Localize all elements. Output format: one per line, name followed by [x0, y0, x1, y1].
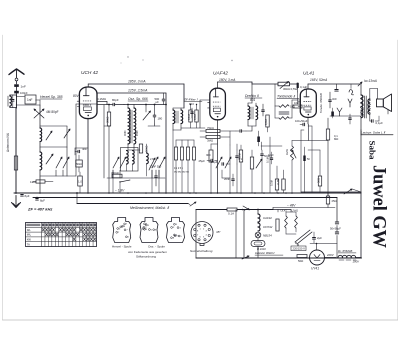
resistor 50kΩ det	[206, 135, 220, 138]
switch contact AF a	[216, 157, 222, 168]
wire UAF42 grid line	[200, 99, 210, 101]
svg-text:180V, 3 mA: 180V, 3 mA	[219, 78, 235, 82]
resistor 0.5MΩ af	[275, 179, 278, 190]
svg-text:360pF: 360pF	[111, 171, 119, 175]
wire -48 line	[273, 207, 335, 209]
svg-text:Ia=13mA: Ia=13mA	[364, 79, 377, 83]
svg-text:0,1M: 0,1M	[187, 114, 191, 120]
capacitor 400pF right	[349, 117, 352, 119]
svg-text:4nF: 4nF	[82, 147, 87, 151]
svg-text:− 48V: − 48V	[287, 204, 296, 208]
capacitor blob det	[257, 137, 260, 143]
capacitor 0.1uF speaker	[371, 120, 373, 123]
box osc low	[121, 148, 139, 172]
IF transformer 1 coil B	[181, 110, 183, 124]
trimmer arrow L1	[46, 131, 52, 140]
socket diagram	[191, 222, 213, 244]
wire x146 plain	[145, 105, 147, 113]
output transformer core	[364, 96, 366, 118]
switch contact b	[63, 157, 69, 168]
IF transformer 2 coil B	[256, 106, 258, 120]
rectifier tube UY41	[310, 250, 325, 265]
svg-text:100+50µF: 100+50µF	[295, 119, 308, 123]
capacitor 180pF osc	[153, 114, 156, 116]
page bottom edge line	[3, 319, 398, 321]
coil former drawing 3	[167, 218, 185, 243]
svg-text:Osz. - Spule: Osz. - Spule	[148, 245, 165, 249]
resistor 1.0kΩ	[78, 176, 83, 186]
page right edge line	[397, 40, 399, 320]
resistor heater dropper	[276, 219, 279, 231]
svg-text:Juwel GW: Juwel GW	[369, 165, 390, 248]
capacitor 1nF antenna series	[14, 84, 19, 87]
switch padder	[120, 180, 130, 182]
wire af columns	[251, 150, 253, 157]
svg-text:0,3M: 0,3M	[193, 114, 197, 120]
svg-text:0,1µF: 0,1µF	[300, 85, 307, 89]
wire res quartet top	[175, 140, 177, 147]
wire UAF42 cathode	[217, 120, 219, 193]
svg-text:Antennen Ntl.: Antennen Ntl.	[6, 133, 10, 152]
resistor 300Ω cath	[209, 150, 213, 162]
svg-text:1MΩ: 1MΩ	[285, 149, 289, 155]
junction arrow Ia	[358, 82, 362, 86]
wire speaker feed	[377, 89, 379, 100]
tone zigzag 2	[279, 117, 289, 120]
svg-text:70kΩ: 70kΩ	[207, 126, 214, 130]
svg-text:20nF: 20nF	[224, 177, 231, 181]
svg-text:µF: µF	[156, 100, 160, 104]
tube UAF42	[210, 88, 226, 120]
wire fb	[332, 116, 334, 118]
voltage selector switch	[295, 230, 310, 242]
capacitor 500pF	[162, 98, 165, 100]
wire x146 down	[148, 125, 160, 127]
resistor 30kΩ osc	[107, 112, 110, 126]
resistor q4	[192, 147, 195, 160]
wire B1-B2 links	[76, 193, 78, 204]
heater resistor UL41	[285, 216, 288, 228]
capacitor IF2 tune	[262, 109, 265, 111]
resistor 0.1MΩ af	[250, 157, 253, 169]
tube UCH42	[79, 87, 97, 119]
capacitor tap T	[336, 84, 338, 89]
wire band frame	[103, 105, 105, 179]
oscillator coil lower B	[133, 150, 135, 164]
switch contact osc c	[152, 157, 158, 168]
svg-text:2,5nF 500: 2,5nF 500	[150, 165, 162, 169]
wire IF1 bottom	[172, 124, 174, 130]
svg-text:4M 80pF: 4M 80pF	[46, 110, 59, 114]
wire tone cap down	[297, 92, 299, 104]
wire mains block verticals	[195, 210, 197, 259]
wire osc column x109	[108, 105, 110, 113]
resistor 0.2MΩ det	[239, 150, 242, 162]
wire sel	[285, 228, 287, 234]
wire antenna node	[17, 96, 25, 98]
svg-text:1990: 1990	[136, 130, 139, 136]
electrolytic 50+50uF	[335, 221, 338, 223]
IF2 core	[250, 107, 252, 119]
jumper table	[26, 223, 97, 247]
svg-text:100pF: 100pF	[20, 91, 28, 95]
wire det cluster	[210, 144, 212, 150]
svg-text:30kΩ: 30kΩ	[106, 117, 110, 123]
heater resistor UY41	[295, 216, 298, 228]
wire transformer wiring	[360, 84, 362, 95]
svg-text:ZF-Filter Ⅰ: ZF-Filter Ⅰ	[183, 98, 199, 102]
svg-text:801: 801	[189, 102, 194, 106]
mains switch	[190, 202, 196, 206]
antenna insulator circle	[15, 78, 18, 81]
resistor 50Ω right	[318, 176, 321, 186]
switch bottom	[242, 256, 249, 259]
svg-text:1,0: 1,0	[78, 180, 82, 184]
capacitor 25uF UAF	[210, 159, 212, 162]
tone pot 30kΩ	[278, 82, 290, 86]
svg-text:8µF: 8µF	[40, 199, 45, 203]
svg-text:M/L: M/L	[27, 233, 32, 237]
trimmer arrow mid	[64, 129, 70, 138]
ground symbol main	[15, 196, 17, 206]
svg-text:Heizwid. 90kΩ/J: Heizwid. 90kΩ/J	[255, 251, 275, 255]
capacitor 8uF b	[36, 198, 39, 200]
switch contact osc a	[113, 157, 119, 168]
coil former drawing 1	[113, 218, 131, 243]
capacitor 20nF af	[232, 178, 235, 180]
svg-text:MΩ MΩ MΩ MΩ: MΩ MΩ MΩ MΩ	[174, 172, 189, 174]
resistor quartet leads	[175, 160, 177, 193]
svg-text:190V: 190V	[353, 260, 361, 264]
svg-text:10µF: 10µF	[268, 154, 274, 157]
switch contact osc b	[120, 157, 126, 168]
speck 4	[121, 63, 122, 64]
tone zigzag 1	[279, 105, 289, 108]
svg-text:185V, 3 mA: 185V, 3 mA	[128, 80, 146, 84]
resistor q2	[180, 147, 183, 160]
tone cap plates	[279, 111, 289, 113]
svg-text:Dr. 656/GB: Dr. 656/GB	[338, 249, 352, 253]
svg-text:25µF: 25µF	[199, 159, 206, 163]
wire UCH42 anode to H1 bus	[87, 84, 89, 87]
switch on fused line	[243, 206, 250, 210]
resistor 10kΩ tone	[293, 105, 302, 108]
wire right mid	[319, 150, 321, 176]
svg-text:0,1M: 0,1M	[266, 156, 270, 163]
resistor 0.3M IF2	[266, 115, 269, 127]
resistor 50kΩ osc grid	[139, 144, 142, 153]
wire UL41 grid	[292, 99, 300, 101]
IF1 core	[175, 111, 177, 123]
wire tone cluster	[274, 84, 276, 106]
capacitor antenna parallel	[12, 99, 14, 101]
wire det rows	[200, 130, 206, 132]
wire UL41 anode	[307, 84, 309, 89]
oscillator coil upper B	[134, 108, 136, 144]
tube UL41	[300, 89, 316, 117]
label 220/150V	[291, 246, 306, 251]
Y symbol tone switch	[348, 99, 352, 107]
svg-text:300: 300	[206, 153, 211, 157]
wire upper res pair	[190, 105, 192, 111]
capacitor 50nF	[261, 153, 264, 155]
svg-text:KW: KW	[27, 238, 32, 242]
svg-text:50kΩ: 50kΩ	[76, 162, 82, 166]
IF transformer 2 coil A	[248, 106, 250, 120]
svg-text:U 2410: U 2410	[257, 247, 266, 251]
svg-text:1kΩ: 1kΩ	[30, 180, 36, 184]
wire H1 drop	[183, 84, 185, 108]
IF transformer 1 coil A	[173, 110, 175, 124]
svg-text:D/L: D/L	[27, 228, 32, 232]
resistor 50kΩ cathode	[76, 160, 83, 167]
wire H2 drop	[165, 93, 167, 193]
coil former drawing 2	[140, 218, 158, 243]
svg-text:45°: 45°	[216, 230, 221, 234]
Y symbol 2	[337, 108, 342, 116]
svg-text:0,1µF: 0,1µF	[376, 121, 384, 125]
svg-text:UAF42: UAF42	[213, 71, 228, 77]
bus B3b fused	[196, 209, 273, 211]
capacitor blob	[331, 112, 334, 117]
capacitor 2.5nF pad	[155, 175, 158, 177]
wire switch columns	[112, 170, 114, 193]
wire UCH42 cathode down	[87, 118, 89, 193]
wire IF1 to UAF g	[181, 127, 205, 129]
svg-text:UCH 42: UCH 42	[81, 70, 98, 76]
page left edge line	[2, 35, 4, 320]
speck 3	[231, 60, 232, 61]
svg-text:80pF: 80pF	[112, 98, 119, 102]
wire x270	[269, 137, 271, 193]
capacitor blob 50	[303, 156, 305, 162]
svg-text:Osz. Sp. 666: Osz. Sp. 666	[128, 97, 148, 101]
svg-text:von Federseite aus gesehen: von Federseite aus gesehen	[128, 250, 167, 254]
svg-text:0,1A: 0,1A	[228, 212, 234, 216]
urdox U2410	[251, 241, 265, 247]
oscillator coil lower A	[127, 150, 129, 164]
bus B3 mains upper	[77, 203, 188, 205]
trimmer capacitor 80pF input	[34, 109, 44, 118]
wire osc mid	[127, 144, 129, 151]
output transformer primary	[361, 95, 363, 118]
switch contact AF b	[225, 157, 231, 168]
svg-text:0060: 0060	[124, 130, 127, 136]
resistor 25Ohm	[326, 196, 329, 204]
trimmer arrow L2	[46, 154, 53, 164]
speaker	[377, 99, 384, 107]
switch contact a	[56, 157, 62, 168]
input coil L1	[40, 128, 42, 142]
capacitor 3nF out	[329, 99, 332, 101]
svg-text:50Ω: 50Ω	[298, 259, 303, 263]
wire right edge vertical	[360, 193, 362, 258]
svg-text:UL41: UL41	[303, 71, 315, 77]
junction dots bus B1	[39, 192, 41, 194]
capacitor 0.1uF tone	[297, 83, 299, 88]
resistor 50Ohm	[297, 255, 307, 258]
svg-text:TA: TA	[27, 242, 30, 246]
wire x230	[229, 145, 231, 193]
capacitor IF1 tune	[191, 111, 194, 113]
svg-text:ZF = 487 kHz: ZF = 487 kHz	[27, 207, 52, 212]
resistor 1kΩ	[36, 180, 45, 183]
wire UAF42 anode up	[217, 82, 219, 88]
bus B2	[33, 197, 337, 199]
wire urdox to line	[257, 247, 259, 259]
wire bandfilter frame	[39, 142, 41, 152]
wire choke out	[356, 257, 361, 259]
svg-text:200V: 200V	[326, 253, 335, 257]
svg-text:0,3M: 0,3M	[276, 178, 280, 185]
svg-text:180: 180	[158, 117, 163, 121]
resistor 0.15MΩ	[326, 129, 329, 140]
svg-text:UCH42: UCH42	[263, 225, 273, 229]
wire y116	[330, 115, 361, 117]
svg-text:0,3M: 0,3M	[264, 119, 268, 125]
switch box antenna	[25, 95, 36, 104]
svg-text:Lautspr. Saba L Ⅱ: Lautspr. Saba L Ⅱ	[361, 131, 386, 135]
svg-text:80V: 80V	[73, 94, 80, 98]
svg-text:1nF: 1nF	[21, 84, 26, 88]
fuse 0.1A	[227, 208, 237, 211]
svg-text:801: 801	[250, 98, 256, 102]
svg-text:8µF: 8µF	[25, 194, 30, 198]
capacitor 100pF antenna	[14, 91, 19, 94]
resistor 0.3MΩ af	[282, 179, 285, 190]
capacitor 80pF coupling	[112, 103, 114, 106]
capacitor 360pF	[112, 174, 122, 178]
wire x316 up	[316, 244, 318, 251]
svg-text:UAF42: UAF42	[263, 216, 272, 220]
wire x328	[327, 118, 329, 129]
wire IF2	[247, 103, 249, 106]
input coil L2	[40, 152, 42, 170]
core lines osc	[130, 110, 132, 143]
feedback squiggle	[349, 90, 354, 95]
svg-text:Herzel Sp. 385: Herzel Sp. 385	[40, 95, 63, 99]
volume pot 1MΩ	[290, 146, 293, 160]
svg-text:Saba: Saba	[368, 141, 378, 161]
wire osc coils top	[127, 105, 129, 109]
svg-text:Tonblende Ⅱ: Tonblende Ⅱ	[277, 95, 295, 99]
svg-text:NB154: NB154	[263, 234, 272, 238]
dial lamp	[255, 232, 261, 238]
wire antenna down	[15, 108, 17, 193]
wire UY41	[325, 257, 337, 259]
capacitor 2uF	[313, 237, 316, 239]
resistor 0.1M upper	[189, 110, 192, 122]
svg-text:2µF: 2µF	[317, 236, 322, 240]
resistor q1	[174, 147, 177, 160]
svg-text:Sockelschaltung: Sockelschaltung	[190, 249, 213, 253]
wire osc bottom frame	[112, 170, 114, 178]
svg-text:30kΩ 0,5W: 30kΩ 0,5W	[283, 87, 298, 91]
wire UCH42 row y105	[84, 104, 88, 106]
wire UCH42 g to H2	[97, 92, 166, 94]
switch arrow det	[256, 159, 262, 168]
wire tone pot	[251, 82, 253, 84]
wire pot	[291, 141, 293, 147]
speck 1	[127, 56, 128, 57]
antenna	[9, 69, 24, 75]
wire x237	[236, 164, 238, 193]
svg-text:50+50µF: 50+50µF	[330, 227, 341, 231]
wire heater drop	[257, 210, 259, 215]
svg-text:165V, 52mA: 165V, 52mA	[310, 78, 327, 82]
svg-text:MΩ: MΩ	[334, 137, 338, 141]
svg-text:Stiftanordnung: Stiftanordnung	[136, 255, 156, 259]
wire x76 vertical	[75, 104, 77, 176]
wire heater top	[277, 210, 279, 213]
svg-text:3MΩ: 3MΩ	[207, 139, 213, 143]
capacitor 25pF	[239, 130, 241, 133]
capacitor 100uF cath	[302, 123, 304, 126]
wire bandfilter top	[39, 105, 41, 128]
wire y104 node to osc	[124, 104, 166, 106]
resistor 0.3M upper	[195, 110, 198, 122]
svg-text:UY41: UY41	[311, 267, 319, 271]
svg-text:Tonabn. 656/GB: Tonabn. 656/GB	[319, 93, 323, 113]
oscillator coil upper A	[128, 108, 130, 144]
svg-text:− 1,8V: − 1,8V	[115, 189, 125, 193]
heater coil UCH42	[258, 223, 260, 231]
resistor 0.1MΩ anode	[97, 101, 107, 104]
resistor q3	[186, 147, 189, 160]
resistor 1000 antenna bleeder	[14, 156, 17, 170]
trimmer osc arrow	[149, 158, 155, 170]
capacitor 8uF a	[21, 194, 24, 196]
svg-text:50Ω: 50Ω	[317, 178, 321, 183]
switch contact osc d	[159, 157, 165, 168]
svg-text:Meßinstrument, Maßst. Ⅱ: Meßinstrument, Maßst. Ⅱ	[130, 206, 170, 210]
wire UL41 cathode	[307, 118, 309, 125]
switch right	[344, 189, 352, 194]
wire x301 x312	[300, 130, 302, 192]
capacitor 4nF cathode	[77, 150, 79, 153]
svg-text:125V, 2,5mA: 125V, 2,5mA	[128, 89, 148, 93]
wire cathode cluster	[75, 147, 88, 149]
svg-text:Herzel - Spule: Herzel - Spule	[112, 245, 132, 249]
svg-text:1nF: 1nF	[27, 98, 33, 102]
capacitor 0.1uF af	[236, 155, 239, 157]
speck 2	[142, 59, 143, 60]
antenna coil with core	[10, 96, 12, 106]
resistor 70kΩ	[206, 129, 220, 132]
coil 2.6	[147, 153, 149, 164]
output transformer secondary	[368, 99, 370, 114]
svg-text:3nF: 3nF	[332, 97, 337, 101]
wire IF1 top	[172, 108, 174, 110]
svg-text:20µF: 20µF	[211, 160, 218, 164]
wire bottom line	[196, 257, 362, 259]
svg-text:0,1MΩ: 0,1MΩ	[97, 97, 107, 101]
svg-text:0,1 2 5 1: 0,1 2 5 1	[174, 168, 184, 170]
svg-text:220/150 V: 220/150 V	[293, 247, 306, 251]
svg-text:0,1: 0,1	[239, 157, 243, 161]
heater coil UAF42	[258, 214, 260, 222]
svg-text:25Ω: 25Ω	[332, 199, 337, 203]
bus B1 chassis	[14, 192, 361, 194]
wire x261	[261, 142, 263, 150]
